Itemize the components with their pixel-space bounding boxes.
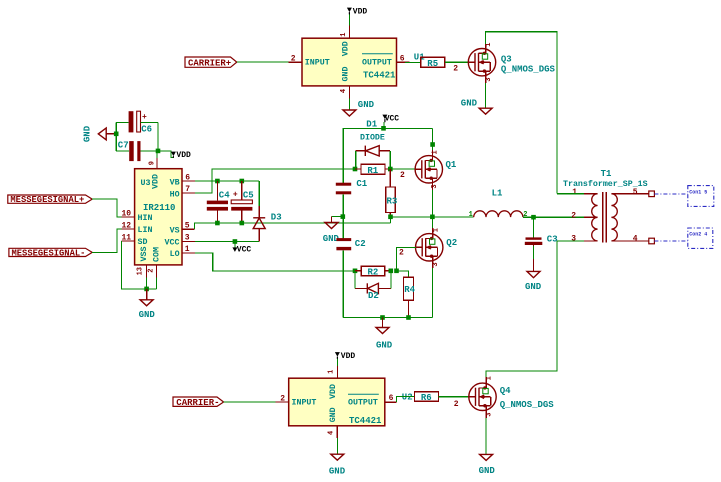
wire VB rail corner to D3 <box>258 181 260 206</box>
wire bottom rail <box>343 317 432 319</box>
wire Q3 source to gnd <box>485 83 487 108</box>
ground left of C6 C7 <box>83 125 117 142</box>
svg-text:VDD: VDD <box>342 41 351 56</box>
svg-text:13: 13 <box>137 267 145 275</box>
transistor Q3 <box>468 43 556 83</box>
svg-text:4: 4 <box>328 431 336 435</box>
svg-text:MESSEGESIGNAL-: MESSEGESIGNAL- <box>12 249 86 259</box>
svg-text:INPUT: INPUT <box>292 399 317 408</box>
svg-text:C4: C4 <box>219 191 230 201</box>
ground below U2 <box>329 454 346 476</box>
svg-text:2: 2 <box>399 248 404 257</box>
junction bottom gnd <box>380 315 385 320</box>
svg-text:VCC: VCC <box>165 239 180 248</box>
capacitor C6 <box>129 111 152 134</box>
svg-text:Con2 4: Con2 4 <box>689 232 707 238</box>
wire left column C6-C7 <box>115 122 117 150</box>
svg-text:OUTPUT: OUTPUT <box>348 399 378 408</box>
svg-text:10: 10 <box>122 209 132 218</box>
svg-text:C2: C2 <box>355 239 366 249</box>
svg-text:GND: GND <box>329 467 346 477</box>
svg-text:GND: GND <box>358 100 375 110</box>
node sheet box 1 <box>688 186 714 207</box>
svg-text:Q1: Q1 <box>446 160 457 170</box>
node open end pin5 <box>649 191 655 197</box>
svg-text:HIN: HIN <box>138 214 153 223</box>
wire VDD node hook <box>158 151 173 157</box>
global label MESSEGESIGNAL+ <box>8 195 92 205</box>
ground below U3 <box>139 289 156 320</box>
svg-text:IR2110: IR2110 <box>143 203 175 213</box>
svg-text:R6: R6 <box>421 393 432 403</box>
pin 6 U1 <box>397 61 410 63</box>
resistor R5 <box>421 57 445 69</box>
diode D1 <box>356 120 391 156</box>
wire D1 right leg <box>389 151 391 169</box>
svg-text:Q_NMOS_DGS: Q_NMOS_DGS <box>501 65 556 75</box>
svg-text:GND: GND <box>342 67 351 82</box>
pin 4 U1 <box>348 86 350 99</box>
pin 11 SD <box>122 240 135 242</box>
pin 10 HIN <box>122 216 135 218</box>
svg-text:GND: GND <box>461 99 478 109</box>
svg-text:VS: VS <box>170 226 180 235</box>
wire pin6 jog to R6 <box>397 397 415 403</box>
op-amp U3 IR2110 body <box>135 169 182 265</box>
wire pin1 to VDD <box>336 359 338 366</box>
capacitor C1 <box>336 179 368 194</box>
wire Q1 drain <box>431 150 433 160</box>
svg-text:6: 6 <box>400 55 405 64</box>
power VDD at IR2110 <box>171 151 191 160</box>
wire R6 to Q4 gate <box>439 396 469 398</box>
wire VSS to gnd net <box>146 277 148 289</box>
svg-text:VCC: VCC <box>237 245 252 254</box>
pin 1 T1 <box>584 193 598 195</box>
pin 4 T1 <box>611 240 648 242</box>
svg-text:C6: C6 <box>141 125 152 135</box>
wire T1 pin1 stub <box>557 193 584 195</box>
resistor R3 <box>386 169 398 217</box>
svg-text:+: + <box>233 191 238 200</box>
ground mid tap <box>323 217 343 245</box>
junction C5 bottom <box>240 221 245 226</box>
svg-text:9: 9 <box>149 161 157 165</box>
svg-text:VDD: VDD <box>329 384 338 399</box>
wire Q3 drain to T1 pin1 <box>486 32 557 194</box>
junction C6 C7 gnd <box>114 132 119 137</box>
svg-text:VCC: VCC <box>385 115 400 124</box>
wire Q2 gate <box>397 247 417 270</box>
junction R4 bottom <box>406 315 411 320</box>
svg-text:COM: COM <box>153 247 162 262</box>
svg-text:12: 12 <box>122 221 132 230</box>
capacitor C3 <box>525 217 558 246</box>
svg-text:CARRIER+: CARRIER+ <box>188 59 231 69</box>
wire VB rail <box>195 180 259 182</box>
svg-text:LO: LO <box>170 250 180 259</box>
resistor R4 <box>404 277 416 317</box>
svg-text:R5: R5 <box>427 59 438 69</box>
junction R1 left <box>353 167 358 172</box>
svg-text:2: 2 <box>291 55 296 64</box>
wire right column C6 down <box>157 122 159 150</box>
ground below U1 <box>343 100 375 116</box>
wire VS rail <box>195 223 391 229</box>
svg-text:Q_NMOS_DGS: Q_NMOS_DGS <box>500 400 555 410</box>
svg-text:5: 5 <box>185 221 190 230</box>
svg-text:GND: GND <box>139 310 156 320</box>
wire L1 to C3 node <box>523 216 534 218</box>
svg-text:L1: L1 <box>492 188 503 198</box>
wire pin4 to gnd <box>348 99 350 111</box>
resistor R6 <box>415 392 439 403</box>
wire D2 left leg <box>354 271 356 289</box>
svg-text:VDD: VDD <box>341 352 356 361</box>
resistor R2 <box>355 266 391 277</box>
capacitor C4 <box>207 181 230 223</box>
wire pin1 to VDD <box>348 14 350 26</box>
wire C6 left <box>116 121 128 123</box>
svg-text:D2: D2 <box>368 291 379 301</box>
svg-text:7: 7 <box>185 185 190 194</box>
svg-text:R2: R2 <box>368 268 379 278</box>
junction R2 left <box>353 269 358 274</box>
pin 5 VS <box>182 228 195 230</box>
pin 13 VSS <box>146 265 148 277</box>
node open end pin4 <box>649 238 655 244</box>
svg-text:VDD: VDD <box>151 174 160 189</box>
wire node to T1 pin2 <box>534 216 585 218</box>
svg-text:D1: D1 <box>366 120 377 130</box>
svg-text:U3: U3 <box>141 179 151 188</box>
wire mid rail right <box>391 216 474 218</box>
svg-text:VDD: VDD <box>176 151 191 160</box>
junction Q mid <box>430 215 435 220</box>
svg-text:1: 1 <box>340 32 348 36</box>
pin 12 LIN <box>122 228 135 230</box>
capacitor C7 <box>118 140 141 161</box>
svg-text:1: 1 <box>469 211 473 219</box>
wire COM to gnd net <box>156 277 158 289</box>
svg-text:2: 2 <box>454 400 459 409</box>
svg-text:INPUT: INPUT <box>305 58 330 67</box>
wire C1 to mid junction <box>342 194 344 239</box>
svg-text:D3: D3 <box>271 212 282 222</box>
svg-text:4: 4 <box>340 89 348 93</box>
junction R3 bottom <box>388 215 393 220</box>
wire Q1 source <box>431 178 433 190</box>
junction Q2 gate net <box>394 269 399 274</box>
svg-text:TC4421: TC4421 <box>363 71 396 81</box>
svg-text:OUTPUT: OUTPUT <box>362 58 392 67</box>
junction Q1 drain <box>430 142 435 147</box>
wire MESSEGESIGNAL- to LIN <box>92 229 121 252</box>
pin 3 VCC <box>182 241 195 243</box>
wire Q2 source <box>432 256 434 268</box>
node sheet box 2 <box>688 228 713 248</box>
op-amp U1 TC4421 body <box>302 38 425 86</box>
svg-text:Con1 5: Con1 5 <box>689 189 707 195</box>
pin 1 LO <box>182 252 195 254</box>
junction R2 right <box>389 269 394 274</box>
power VCC top rail <box>382 115 399 129</box>
svg-text:R4: R4 <box>404 285 415 295</box>
svg-text:TC4421: TC4421 <box>349 416 382 426</box>
capacitor C5 <box>231 181 254 223</box>
junction VCC top rail <box>381 126 386 131</box>
svg-text:1: 1 <box>185 245 190 254</box>
junction VCC <box>233 239 238 244</box>
pin 3 T1 <box>584 240 598 242</box>
svg-text:C7: C7 <box>118 140 129 150</box>
power VDD top <box>347 7 368 16</box>
diode D2 <box>355 283 391 301</box>
wire CARRIER- to U2 pin2 <box>224 401 276 403</box>
svg-text:GND: GND <box>83 125 93 142</box>
junction VDD node <box>156 149 161 154</box>
svg-text:C5: C5 <box>243 191 254 201</box>
svg-text:1: 1 <box>432 228 440 232</box>
svg-text:LIN: LIN <box>138 226 153 235</box>
svg-text:Q2: Q2 <box>446 238 457 248</box>
svg-text:R3: R3 <box>387 197 398 207</box>
transistor Q1 <box>415 150 457 188</box>
wire HO to R1 <box>195 169 355 193</box>
pin 2 U1 <box>289 61 302 63</box>
ground below Q4 <box>479 454 496 476</box>
svg-text:2: 2 <box>453 64 458 73</box>
wire T1 pin3 stub <box>557 240 584 242</box>
pin 1 U2 <box>336 366 338 378</box>
wire SD down to gnd net <box>122 241 157 289</box>
pin 2 COM <box>156 265 158 277</box>
pin 6 U2 <box>385 401 397 403</box>
pin 1 U1 <box>348 26 350 39</box>
wire Q2 drain <box>432 228 434 238</box>
wire dashed to sheet box 2 <box>654 240 687 242</box>
svg-text:GND: GND <box>376 340 393 350</box>
wire R1 to Q1 gate <box>390 168 415 170</box>
svg-text:C1: C1 <box>356 179 367 189</box>
wire Q4 drain to T1 pin3 <box>485 377 487 388</box>
wire C6 right <box>141 121 159 123</box>
junction C4 bottom <box>215 221 220 226</box>
transistor Q2 <box>399 228 457 267</box>
wire C2 to bottom rail <box>342 250 344 317</box>
wire R5 to Q3 gate <box>445 61 468 63</box>
power VCC at U3 <box>232 242 251 255</box>
transformer T1 <box>563 169 648 242</box>
wire CARRIER+ to U1 pin2 <box>237 61 289 63</box>
svg-text:3: 3 <box>571 235 576 244</box>
svg-text:C3: C3 <box>547 234 558 244</box>
svg-text:GND: GND <box>479 466 496 476</box>
wire C7 right <box>141 150 159 152</box>
svg-text:SD: SD <box>138 238 148 247</box>
wire D1 left leg <box>355 151 357 169</box>
capacitor C2 <box>336 238 365 250</box>
wire Q4 source to gnd <box>485 406 487 418</box>
svg-text:2: 2 <box>400 171 405 180</box>
wire pin4 to gnd <box>336 438 338 454</box>
ground below Q3 <box>461 99 492 115</box>
wire D2 right leg <box>390 271 392 289</box>
wire C3 to gnd <box>533 246 535 259</box>
junction C4 top <box>215 179 220 184</box>
junction L1 C3 <box>531 215 536 220</box>
pin 6 VB <box>182 180 195 182</box>
op-amp U2 TC4421 body <box>289 378 413 426</box>
svg-text:T1: T1 <box>601 169 612 179</box>
wire MESSEGESIGNAL+ to HIN <box>92 199 121 217</box>
global label CARRIER+ <box>185 57 237 69</box>
wire C7 left <box>116 150 129 152</box>
pin 2 U2 <box>276 401 289 403</box>
global label CARRIER- <box>173 397 224 408</box>
svg-text:Q3: Q3 <box>501 54 512 64</box>
svg-text:2: 2 <box>571 212 576 221</box>
wire pin6 to R5 <box>405 61 421 63</box>
svg-text:6: 6 <box>185 173 190 182</box>
svg-text:GND: GND <box>525 282 542 292</box>
svg-text:Q4: Q4 <box>500 386 511 396</box>
wire VDD node to pin9 <box>156 151 158 158</box>
svg-text:4: 4 <box>633 235 638 244</box>
svg-text:1: 1 <box>328 370 336 374</box>
wire LO to R2 <box>195 253 355 271</box>
svg-text:6: 6 <box>389 394 394 403</box>
junction C column gnd tap <box>341 214 346 219</box>
svg-text:3: 3 <box>185 234 190 243</box>
svg-text:MESSEGESIGNAL+: MESSEGESIGNAL+ <box>10 195 84 205</box>
inductor L1 <box>469 188 528 219</box>
svg-text:5: 5 <box>633 188 638 197</box>
pin 9 U3 <box>156 158 158 169</box>
global label MESSEGESIGNAL- <box>9 248 92 258</box>
junction R1 right <box>388 167 393 172</box>
svg-text:VDD: VDD <box>353 7 368 16</box>
diode D3 <box>253 206 281 242</box>
svg-text:1: 1 <box>572 188 577 197</box>
svg-text:VB: VB <box>170 178 180 187</box>
svg-text:11: 11 <box>122 233 132 242</box>
svg-text:2: 2 <box>280 394 285 403</box>
ground bottom rail <box>376 318 393 351</box>
svg-text:VSS: VSS <box>140 247 149 262</box>
junction under U3 <box>144 287 149 292</box>
pin 2 T1 <box>584 216 598 218</box>
pin 7 HO <box>182 192 195 194</box>
svg-text:U2: U2 <box>402 393 413 403</box>
svg-text:GND: GND <box>329 407 338 422</box>
svg-text:HO: HO <box>170 190 180 199</box>
pin 5 T1 <box>611 193 648 195</box>
transistor Q4 <box>469 376 555 417</box>
wire to R4 <box>397 271 409 278</box>
wire VS jog up <box>390 217 392 223</box>
svg-text:DIODE: DIODE <box>360 134 385 143</box>
junction C5 top <box>240 179 245 184</box>
wire VCC to D3 <box>195 241 259 243</box>
svg-text:3: 3 <box>485 77 493 81</box>
ground below C3 <box>525 259 542 292</box>
svg-text:R1: R1 <box>367 166 378 176</box>
pin 4 U2 <box>336 426 338 438</box>
power VDD above U2 <box>335 352 356 361</box>
svg-text:+: + <box>142 113 147 122</box>
resistor R1 <box>355 164 390 176</box>
svg-text:CARRIER-: CARRIER- <box>176 398 219 408</box>
svg-text:2: 2 <box>147 268 155 272</box>
wire dashed to sheet box 1 <box>654 193 687 195</box>
wire top rail VCC <box>343 128 432 184</box>
